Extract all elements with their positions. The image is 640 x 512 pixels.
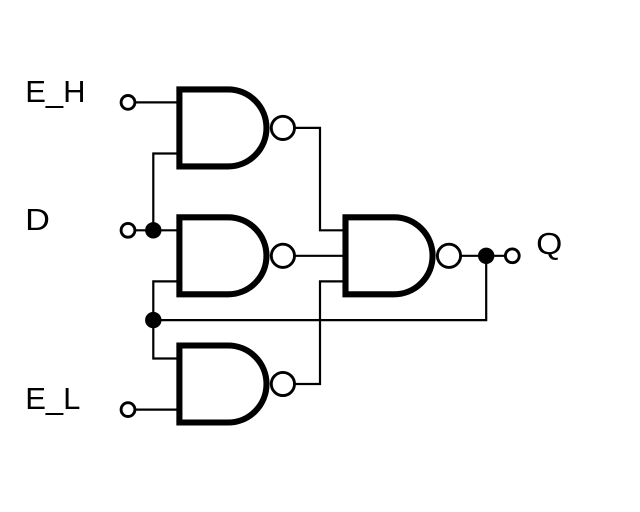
junction node D: [145, 222, 161, 238]
nand gate U4: [346, 217, 461, 294]
wire U3 output to U4 pin C: [295, 281, 343, 384]
wire E_H input to U1 pin A: [135, 101, 177, 103]
junction node Q: [478, 248, 494, 264]
svg-text:Q: Q: [536, 226, 562, 261]
wire U2 pin B down to U3 pin A: [153, 281, 177, 358]
svg-text:D: D: [25, 202, 50, 237]
nand gate U3: [179, 346, 294, 423]
wire E_L input to U3 pin B: [135, 409, 177, 411]
wire U1 output to U4 pin A: [295, 128, 344, 230]
wire U1 pin B down to D node: [153, 154, 177, 231]
wire U4 output to Q terminal: [462, 255, 507, 257]
terminal E_H: [121, 96, 135, 110]
svg-text:E_L: E_L: [25, 381, 80, 416]
terminal E_L: [121, 403, 135, 417]
wire U2 output to U4 pin B: [295, 255, 343, 257]
terminal Q: [505, 249, 519, 263]
wire Q feedback down and left to node FB: [153, 256, 486, 320]
terminal D: [121, 223, 135, 237]
wire D input to U2 pin A: [135, 229, 177, 231]
svg-text:E_H: E_H: [25, 74, 85, 109]
nand gate U2: [179, 217, 294, 294]
junction node FB: [145, 312, 161, 328]
nand gate U1: [179, 89, 294, 166]
